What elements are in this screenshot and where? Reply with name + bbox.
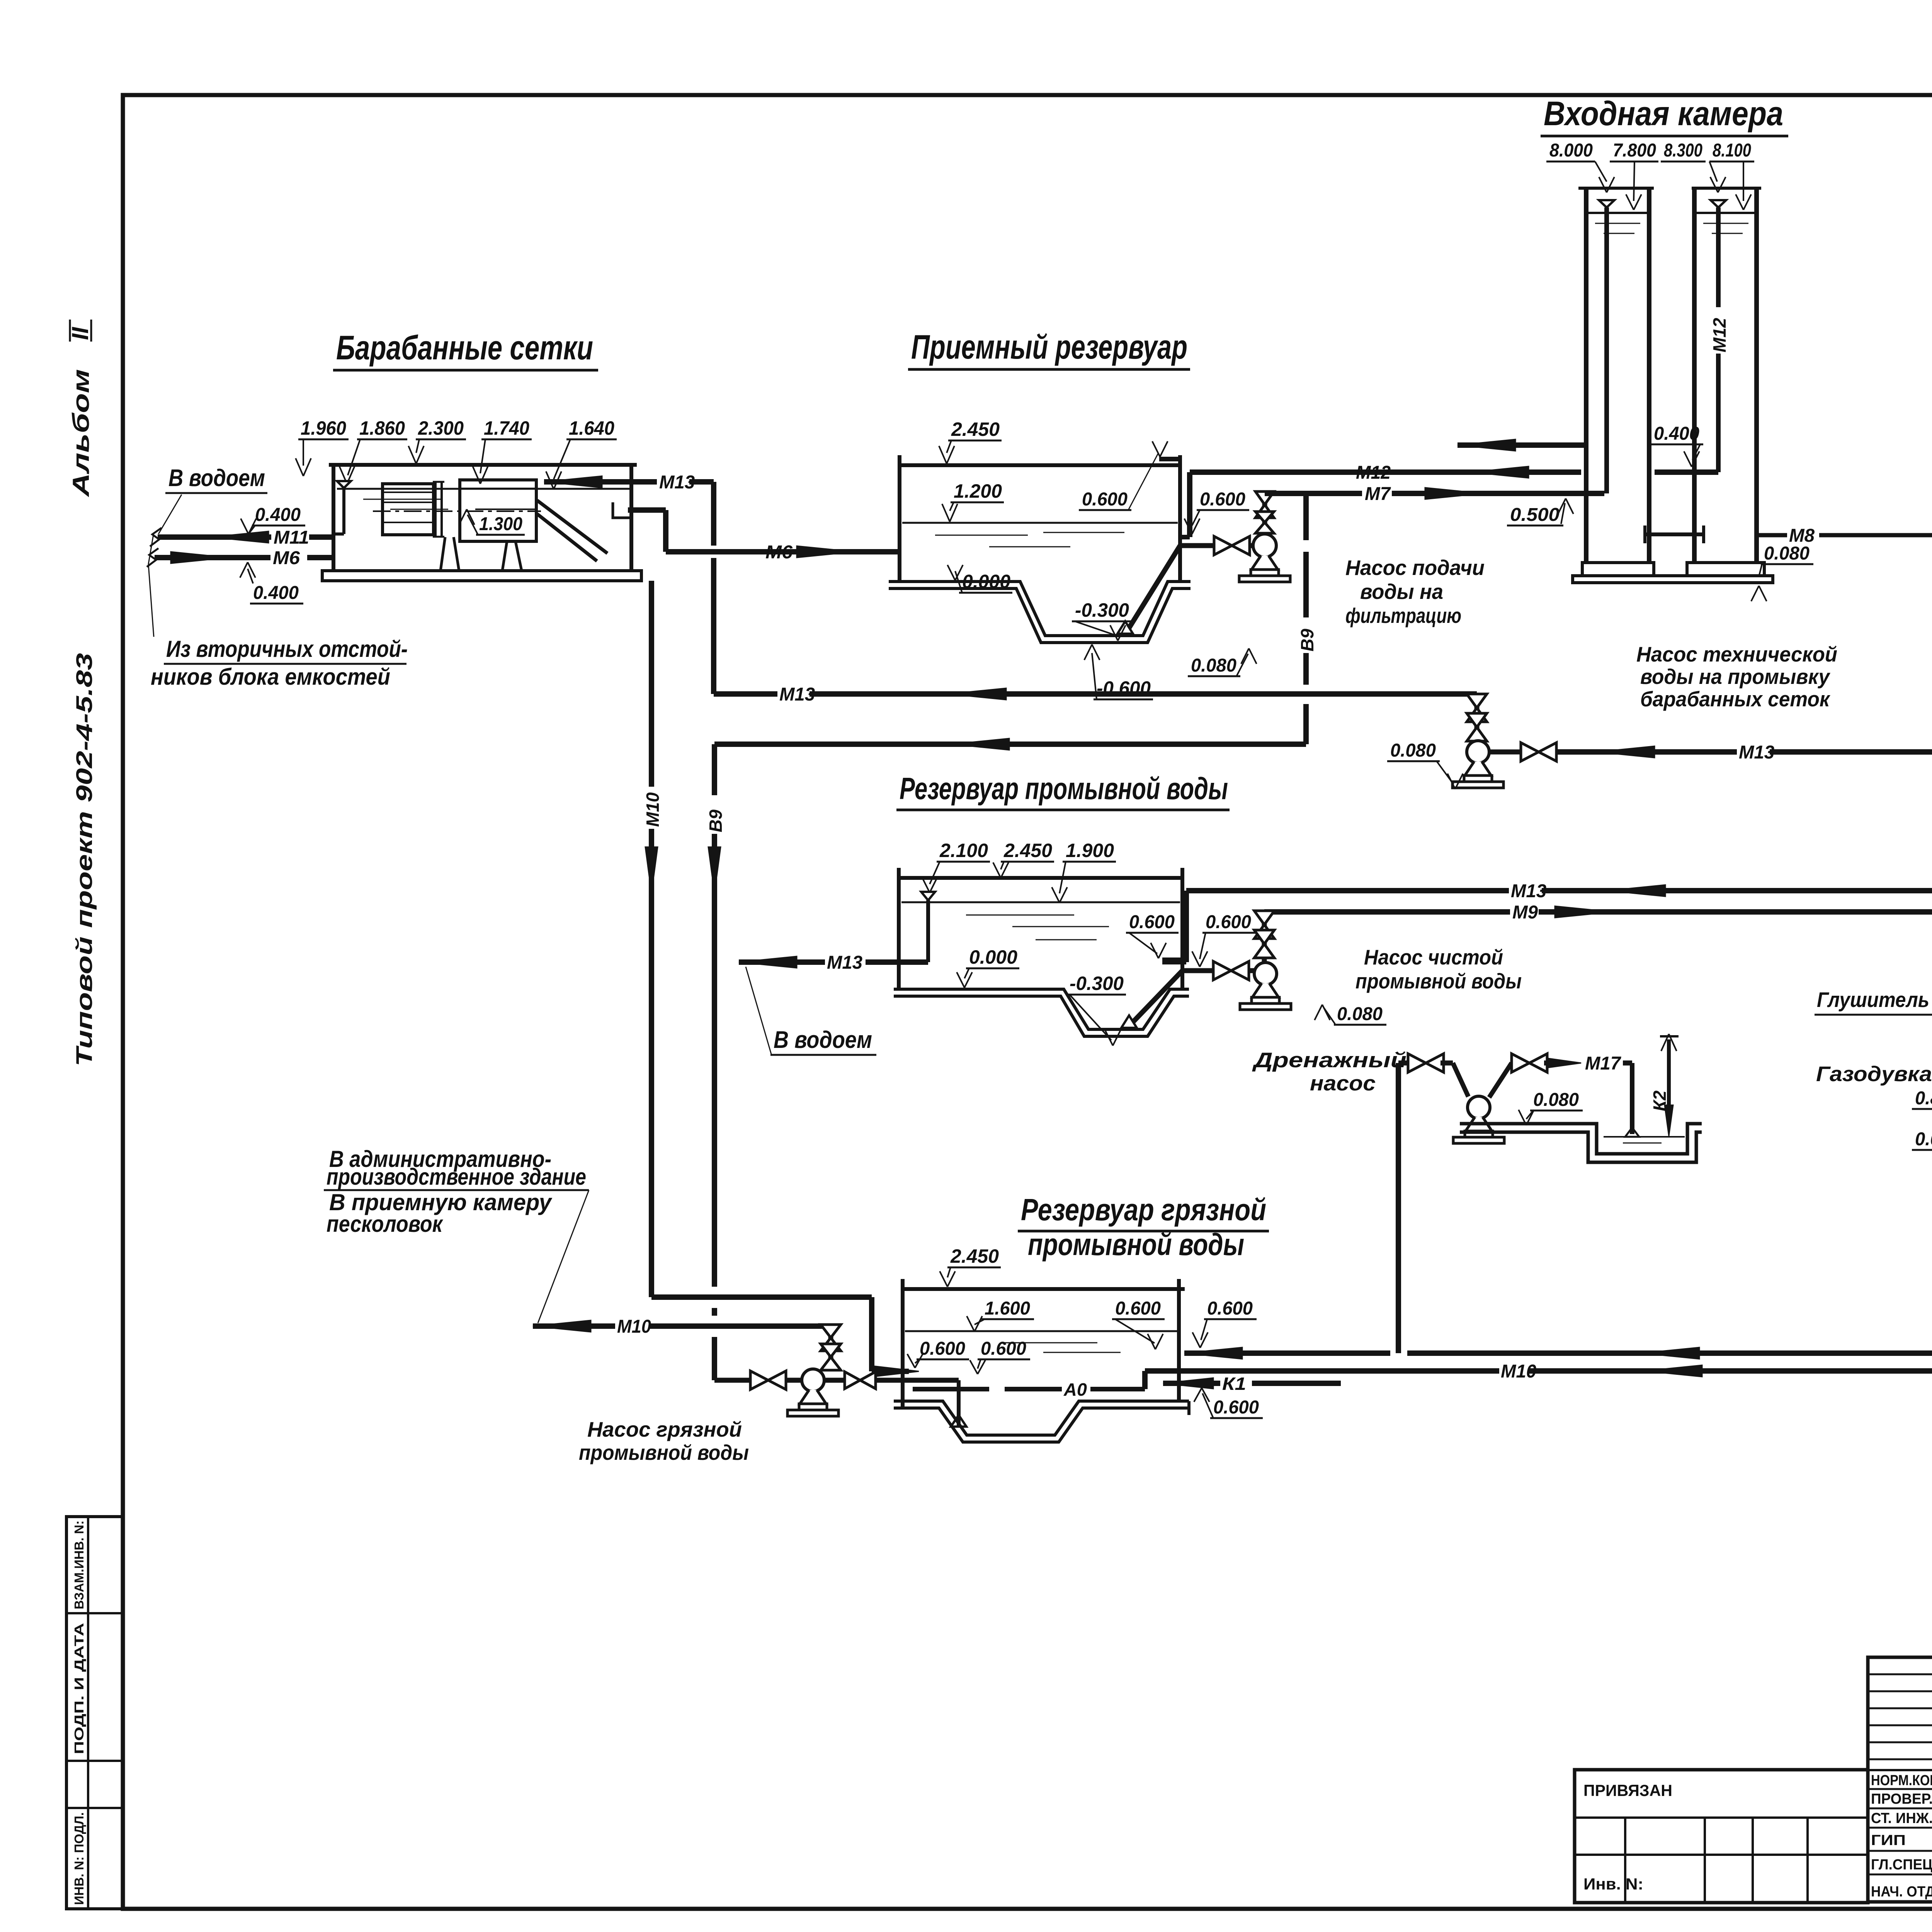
table label PODP I DATA <box>72 1623 86 1754</box>
drainage discharge slope <box>1489 1063 1512 1097</box>
svg-text:2.450: 2.450 <box>950 1245 999 1267</box>
svg-text:Из вторичных отстой-: Из вторичных отстой- <box>166 636 408 662</box>
dim 1.200 <box>942 480 1004 522</box>
note from secondary settlers line2 <box>151 664 390 690</box>
label V vodoem wash <box>746 967 876 1055</box>
svg-text:ВЗАМ.ИНВ. N:: ВЗАМ.ИНВ. N: <box>72 1520 86 1609</box>
pipe K1 row <box>1163 1374 1341 1394</box>
dim 0.600 b <box>1184 489 1249 534</box>
svg-text:Приемный резервуар: Приемный резервуар <box>911 328 1187 366</box>
dirty tank internal drop pipe <box>951 1380 966 1427</box>
svg-text:Глушитель шума: Глушитель шума <box>1817 988 1932 1012</box>
svg-text:ПРОВЕР.: ПРОВЕР. <box>1871 1791 1932 1807</box>
gate valves on riser M7 <box>1255 492 1274 533</box>
svg-text:1.900: 1.900 <box>1066 840 1114 861</box>
svg-text:2.450: 2.450 <box>1003 840 1052 861</box>
suction pipe to pump receiving <box>1180 543 1214 548</box>
note gazoduvka <box>1816 1062 1932 1086</box>
pipe valve to pump <box>1249 543 1254 548</box>
svg-text:К1: К1 <box>1222 1374 1246 1394</box>
svg-text:НОРМ.КОН.: НОРМ.КОН. <box>1871 1772 1932 1789</box>
svg-text:Насос грязной: Насос грязной <box>587 1417 742 1441</box>
discharge chute <box>537 500 630 561</box>
svg-text:Газодувка: Газодувка <box>1816 1062 1932 1086</box>
suction foot receiving <box>1117 546 1180 634</box>
pipe B9 row <box>714 738 1306 750</box>
svg-text:М13: М13 <box>827 952 862 973</box>
svg-text:0.600: 0.600 <box>1213 1397 1259 1418</box>
svg-text:М10: М10 <box>1501 1361 1536 1382</box>
svg-text:воды на промывку: воды на промывку <box>1640 665 1830 689</box>
svg-text:М12: М12 <box>1356 463 1391 483</box>
dirty pump riser valves <box>821 1325 841 1371</box>
dim 1.600 <box>967 1298 1034 1332</box>
svg-text:В9: В9 <box>1297 629 1317 651</box>
svg-text:М6: М6 <box>765 542 793 563</box>
dim -0.300 wash <box>1066 973 1126 1046</box>
svg-text:М13: М13 <box>659 472 695 493</box>
title wash water tank <box>896 771 1230 810</box>
svg-text:ГИП: ГИП <box>1871 1832 1906 1849</box>
svg-text:0.000: 0.000 <box>969 946 1017 968</box>
svg-text:ГЛ.СПЕЦ.: ГЛ.СПЕЦ. <box>1871 1857 1932 1873</box>
dim 0.600 a <box>1079 441 1168 510</box>
pipe M9 row <box>1264 902 1932 923</box>
svg-text:8.000: 8.000 <box>1549 140 1593 161</box>
dim 0.875 <box>1912 1088 1932 1109</box>
svg-text:-0.300: -0.300 <box>1070 973 1124 994</box>
dim 0.080 blower <box>1912 1129 1932 1150</box>
leader admin note <box>538 1190 589 1323</box>
left column water <box>1588 213 1647 233</box>
svg-text:Барабанные сетки: Барабанные сетки <box>336 328 593 367</box>
svg-text:1.200: 1.200 <box>954 480 1002 502</box>
left column walls <box>1578 188 1654 563</box>
title dirty tank line2 <box>1028 1227 1244 1262</box>
table label VZAM INV <box>72 1520 86 1609</box>
title drum screens <box>333 328 598 370</box>
svg-text:2.100: 2.100 <box>939 840 988 861</box>
svg-text:1.960: 1.960 <box>301 417 346 439</box>
suction pipe wash pump <box>1182 968 1214 973</box>
vertical text Album II <box>67 320 94 498</box>
overflow funnel left <box>335 481 351 534</box>
svg-text:2.300: 2.300 <box>418 417 464 439</box>
valve drainage suction <box>1398 1054 1453 1072</box>
separator plates <box>433 482 444 537</box>
svg-text:А0: А0 <box>1063 1379 1087 1400</box>
pump discharge riser M7 <box>1262 493 1267 535</box>
wash tank bottom with sump <box>894 989 1189 1036</box>
dim 0.600 dirty top b <box>1192 1298 1257 1348</box>
svg-text:0.600: 0.600 <box>1206 912 1251 932</box>
dim 1.900 <box>1052 840 1116 903</box>
note to admin building line2 <box>324 1164 589 1190</box>
support legs drum2 <box>502 541 522 571</box>
break symbol M11 <box>150 528 162 546</box>
dim 0.400 lower <box>240 562 303 604</box>
svg-text:М12: М12 <box>1709 318 1730 352</box>
svg-text:0.600: 0.600 <box>1207 1298 1253 1319</box>
note silencer <box>1815 988 1932 1046</box>
svg-text:М17: М17 <box>1585 1053 1621 1074</box>
svg-text:0.080: 0.080 <box>1533 1090 1579 1110</box>
svg-text:ИНВ. N: ПОДЛ.: ИНВ. N: ПОДЛ. <box>72 1812 86 1905</box>
svg-text:НАЧ. ОТД.: НАЧ. ОТД. <box>1871 1884 1932 1900</box>
pipe M13 into drum screens <box>544 472 714 493</box>
note dirty pump line2 <box>579 1440 749 1464</box>
pipe M13 drop to wash tank outlet <box>1162 891 1186 962</box>
note pump to filtration <box>1345 556 1485 628</box>
svg-text:песколовок: песколовок <box>327 1211 443 1237</box>
note to admin building line3 <box>329 1189 553 1215</box>
svg-text:К2: К2 <box>1650 1090 1670 1111</box>
svg-text:Дренажный: Дренажный <box>1252 1048 1406 1072</box>
valve dirty pump discharge <box>824 1372 959 1389</box>
svg-text:В9: В9 <box>706 810 726 832</box>
dim 0.600 wash a <box>1126 912 1179 958</box>
title input chamber <box>1541 94 1788 136</box>
pipe M13 backwash supply row <box>714 684 1477 705</box>
wash tank walls <box>899 868 1182 989</box>
receiving tank bottom with sump <box>889 582 1190 643</box>
svg-text:М11: М11 <box>274 527 309 548</box>
drum 2 <box>460 480 536 541</box>
dirty pump suction row <box>714 1378 750 1383</box>
valve tech pump <box>1521 743 1556 761</box>
svg-text:Резервуар грязной: Резервуар грязной <box>1021 1192 1266 1227</box>
label V vodoem (to watercourse) <box>158 465 267 534</box>
dim 0.080 drainage <box>1519 1090 1583 1125</box>
left margin table frame <box>66 1517 123 1909</box>
dim 0.080 wash pump <box>1315 1004 1386 1025</box>
right column inner pipe M12 <box>1716 207 1721 472</box>
dim 2.450 receiving <box>939 418 1002 464</box>
svg-text:0.400: 0.400 <box>1654 423 1699 444</box>
svg-text:0.080: 0.080 <box>1191 655 1236 676</box>
dim 0.600 dirty top a <box>1112 1298 1165 1349</box>
dim -0.600 <box>1084 645 1153 699</box>
A0 aeration line in tank <box>913 1379 1145 1400</box>
axis dash-dot <box>373 510 541 512</box>
label K2 <box>1650 1090 1670 1111</box>
wash tank upper outlet stub <box>1162 957 1183 962</box>
label privyazan <box>1583 1781 1672 1799</box>
dim 2.100 <box>922 840 990 893</box>
pipe M17 riser <box>1396 1063 1401 1353</box>
note to admin building line4 <box>327 1211 443 1237</box>
svg-text:насос: насос <box>1310 1071 1376 1095</box>
pipe M12 row <box>1190 463 1718 483</box>
svg-text:2.450: 2.450 <box>951 418 1000 440</box>
svg-text:0.400: 0.400 <box>253 583 299 603</box>
svg-text:0.600: 0.600 <box>1200 489 1245 510</box>
water line wash tank <box>901 902 1180 940</box>
dim 0.080 chamber <box>1751 543 1813 601</box>
wash pump discharge riser <box>1262 912 1267 963</box>
svg-text:М13: М13 <box>779 684 815 705</box>
svg-text:0.080: 0.080 <box>1390 740 1436 761</box>
right column walls <box>1692 188 1761 563</box>
svg-text:промывной воды: промывной воды <box>579 1440 749 1464</box>
pump clean wash water <box>1240 963 1291 1010</box>
dim 0.000 wash <box>957 946 1019 988</box>
svg-text:барабанных сеток: барабанных сеток <box>1640 687 1831 711</box>
svg-text:1.300: 1.300 <box>479 514 522 534</box>
dim 8.300 <box>1661 140 1726 192</box>
svg-text:1.740: 1.740 <box>484 417 529 439</box>
title block outer <box>1575 1657 1932 1903</box>
arrow M17 <box>1548 1053 1632 1074</box>
svg-text:0.600: 0.600 <box>1115 1298 1161 1319</box>
label M10 drum drop <box>643 792 663 827</box>
dirty tank walls <box>903 1279 1185 1408</box>
right column water <box>1697 213 1754 233</box>
vertical text project number 902-4-5.83 <box>72 653 97 1066</box>
svg-text:СТ. ИНЖ.: СТ. ИНЖ. <box>1871 1810 1932 1827</box>
svg-text:воды на: воды на <box>1360 580 1443 604</box>
svg-text:М9: М9 <box>1512 902 1538 923</box>
table label INV N PODL <box>72 1812 86 1905</box>
dim 0.600 wash b <box>1192 912 1255 967</box>
valve drainage discharge <box>1512 1054 1553 1072</box>
dim 1.300 inside drum <box>459 509 525 535</box>
svg-text:8.100: 8.100 <box>1713 140 1751 161</box>
svg-text:ПОДП. И ДАТА: ПОДП. И ДАТА <box>72 1623 86 1754</box>
svg-text:производственное здание: производственное здание <box>327 1164 586 1190</box>
drainage floor and pit <box>1460 1124 1702 1162</box>
pipe M13 suction row <box>1556 742 1932 763</box>
water level line <box>337 489 630 509</box>
svg-text:фильтрацию: фильтрацию <box>1345 604 1461 628</box>
left column funnel <box>1599 200 1614 207</box>
pipe M10 exit row <box>533 1316 831 1337</box>
valve receiving pump <box>1214 536 1250 555</box>
pipe M13 outfall row <box>739 952 928 973</box>
drainage suction slope <box>1453 1063 1468 1097</box>
drum 1 <box>383 484 434 535</box>
pipe M11 to watercourse <box>158 527 335 548</box>
svg-text:8.300: 8.300 <box>1664 140 1702 161</box>
svg-text:Насос чистой: Насос чистой <box>1364 945 1503 969</box>
note to admin building line1 <box>329 1146 551 1172</box>
svg-text:1.600: 1.600 <box>985 1298 1030 1319</box>
support legs drum1 <box>440 537 459 571</box>
svg-text:Инв. N:: Инв. N: <box>1583 1875 1643 1893</box>
signature grid rows <box>1868 1674 1932 1874</box>
svg-text:Альбом: Альбом <box>68 369 94 498</box>
svg-text:0.600: 0.600 <box>981 1338 1026 1359</box>
svg-text:Насос технической: Насос технической <box>1636 642 1837 666</box>
valve wash pump <box>1213 961 1249 980</box>
pipe M6 from settlers <box>155 548 335 568</box>
pipe B9 riser from M7 <box>1303 493 1309 744</box>
label M12 inner pipe <box>1709 318 1730 352</box>
gate valves wash pump riser <box>1254 911 1274 958</box>
dim 1.960 <box>296 417 349 476</box>
dim 2.300 <box>408 417 466 464</box>
pipe A0 row <box>1184 1347 1932 1359</box>
pipe M17 drop to pit <box>1630 1063 1634 1134</box>
dim 0.600 dirty right <box>1194 1388 1263 1418</box>
svg-text:Резервуар промывной воды: Резервуар промывной воды <box>900 771 1228 806</box>
drum screens tank right wall <box>629 465 633 571</box>
pipe M8 row <box>1757 526 1932 546</box>
pipe to dirty pump <box>787 1378 801 1383</box>
left column inner pipe M7 <box>1604 207 1609 493</box>
pump dirty wash water <box>787 1369 838 1416</box>
label inv N <box>1583 1875 1643 1893</box>
title receiving tank <box>908 328 1190 369</box>
upper outlet stub receiving <box>1159 457 1181 461</box>
pit water level <box>1604 1128 1685 1143</box>
svg-text:0.600: 0.600 <box>1082 489 1128 510</box>
right column funnel <box>1711 200 1726 207</box>
svg-text:0.500: 0.500 <box>1510 505 1560 525</box>
svg-text:1.860: 1.860 <box>359 417 405 439</box>
base plate drum screens <box>322 571 641 581</box>
note tech pump line2 <box>1640 665 1830 689</box>
sewer K2 line <box>1660 1034 1679 1136</box>
tech pump riser valves <box>1467 694 1487 741</box>
pipe M10 row from filter <box>1145 1361 1932 1389</box>
svg-text:М6: М6 <box>273 548 300 568</box>
inter-column tie <box>1645 526 1704 543</box>
outfall arrow left of chamber <box>1458 439 1584 451</box>
pipe machine outlet to M6 row <box>628 510 899 563</box>
svg-text:М10: М10 <box>643 792 663 827</box>
note tech pump line3 <box>1640 687 1831 711</box>
note from secondary settlers line1 <box>164 636 408 664</box>
dim 1.740 <box>473 417 532 484</box>
title dirty tank line1 <box>1018 1192 1269 1231</box>
dim 7.800 <box>1610 140 1658 210</box>
svg-text:В водоем: В водоем <box>774 1027 872 1053</box>
svg-text:0.080: 0.080 <box>1337 1004 1383 1024</box>
svg-text:0.400: 0.400 <box>255 505 301 525</box>
svg-text:II: II <box>67 327 93 340</box>
pipe M13 drop at right of machine <box>711 482 716 694</box>
dim 1.640 <box>546 417 617 489</box>
note tech pump line1 <box>1636 642 1837 666</box>
pipe M13 row to wash tank <box>1186 881 1932 901</box>
svg-text:0.600: 0.600 <box>1129 912 1175 932</box>
dim 0.080 tech pump <box>1387 740 1463 789</box>
label B9 on riser <box>1297 629 1317 651</box>
svg-text:0.875: 0.875 <box>1915 1088 1932 1109</box>
drum screens tank top <box>329 463 637 467</box>
svg-text:-0.300: -0.300 <box>1075 599 1129 621</box>
pump technical water <box>1452 741 1503 788</box>
column bases <box>1573 563 1773 583</box>
overflow funnel wash tank <box>921 892 935 962</box>
svg-text:М7: М7 <box>1365 484 1391 504</box>
svg-text:промывной воды: промывной воды <box>1355 969 1522 993</box>
svg-text:ПРИВЯЗАН: ПРИВЯЗАН <box>1583 1781 1672 1799</box>
svg-text:М13: М13 <box>1511 881 1546 901</box>
dirty tank bottom with sump <box>894 1401 1189 1442</box>
pump water supply to filtration <box>1239 534 1290 582</box>
dirty tank level line <box>905 1331 1177 1352</box>
tech pump suction pipe <box>1489 750 1520 755</box>
signature roles <box>1871 1772 1932 1900</box>
dim 8.100 <box>1709 140 1754 210</box>
svg-text:1.640: 1.640 <box>569 417 614 439</box>
svg-text:В водоем: В водоем <box>168 465 265 492</box>
dim 0.400 upper <box>241 505 305 534</box>
svg-text:0.600: 0.600 <box>920 1338 965 1359</box>
title block left dividers <box>1575 1818 1868 1903</box>
dim 0.080 receiving pump <box>1188 648 1257 676</box>
note dirty pump line1 <box>587 1417 742 1441</box>
pipe M7 row <box>1265 484 1604 504</box>
dim 0.600 dirty left b <box>970 1338 1030 1374</box>
note drainage pump <box>1252 1048 1406 1095</box>
break symbol M6 <box>147 548 158 567</box>
water line receiving <box>902 523 1178 547</box>
dim 2.450 dirty <box>940 1245 1001 1287</box>
pump drainage <box>1453 1096 1504 1143</box>
svg-text:7.800: 7.800 <box>1613 140 1656 161</box>
svg-text:0.080: 0.080 <box>1915 1129 1932 1150</box>
pipe M12 drop to tank <box>1180 472 1190 537</box>
pipe M10 from drum screens drop <box>645 581 919 1377</box>
dim 8.000 <box>1546 140 1614 192</box>
svg-text:промывной воды: промывной воды <box>1028 1227 1244 1262</box>
dim -0.300 receiving <box>1072 599 1131 641</box>
dim 1.860 <box>339 417 407 484</box>
drum screens tank left wall <box>332 465 335 571</box>
svg-text:Типовой проект 902-4-5.83: Типовой проект 902-4-5.83 <box>72 653 97 1066</box>
label B9 left drop <box>706 810 726 832</box>
receiving tank walls <box>900 455 1180 582</box>
dim 2.450 wash <box>993 840 1054 878</box>
dim 0.400 chamber <box>1651 423 1703 467</box>
svg-text:М10: М10 <box>617 1316 651 1337</box>
dim 0.000 receiving <box>947 565 1012 593</box>
note clean wash pump <box>1355 945 1522 993</box>
svg-text:Входная камера: Входная камера <box>1544 94 1783 133</box>
leader from secondary settlers note <box>148 532 154 637</box>
suction foot wash tank <box>1121 971 1182 1028</box>
svg-text:ников блока емкостей: ников блока емкостей <box>151 664 390 690</box>
dim 0.500 <box>1507 498 1573 526</box>
dim 0.600 dirty left a <box>907 1338 969 1368</box>
svg-text:0.080: 0.080 <box>1764 543 1810 564</box>
pipe B9 left drop <box>708 744 721 1380</box>
svg-text:М13: М13 <box>1739 742 1774 763</box>
valve dirty pump suction <box>750 1371 786 1389</box>
svg-text:Насос подачи: Насос подачи <box>1345 556 1485 580</box>
pipe to wash pump <box>1248 968 1255 973</box>
